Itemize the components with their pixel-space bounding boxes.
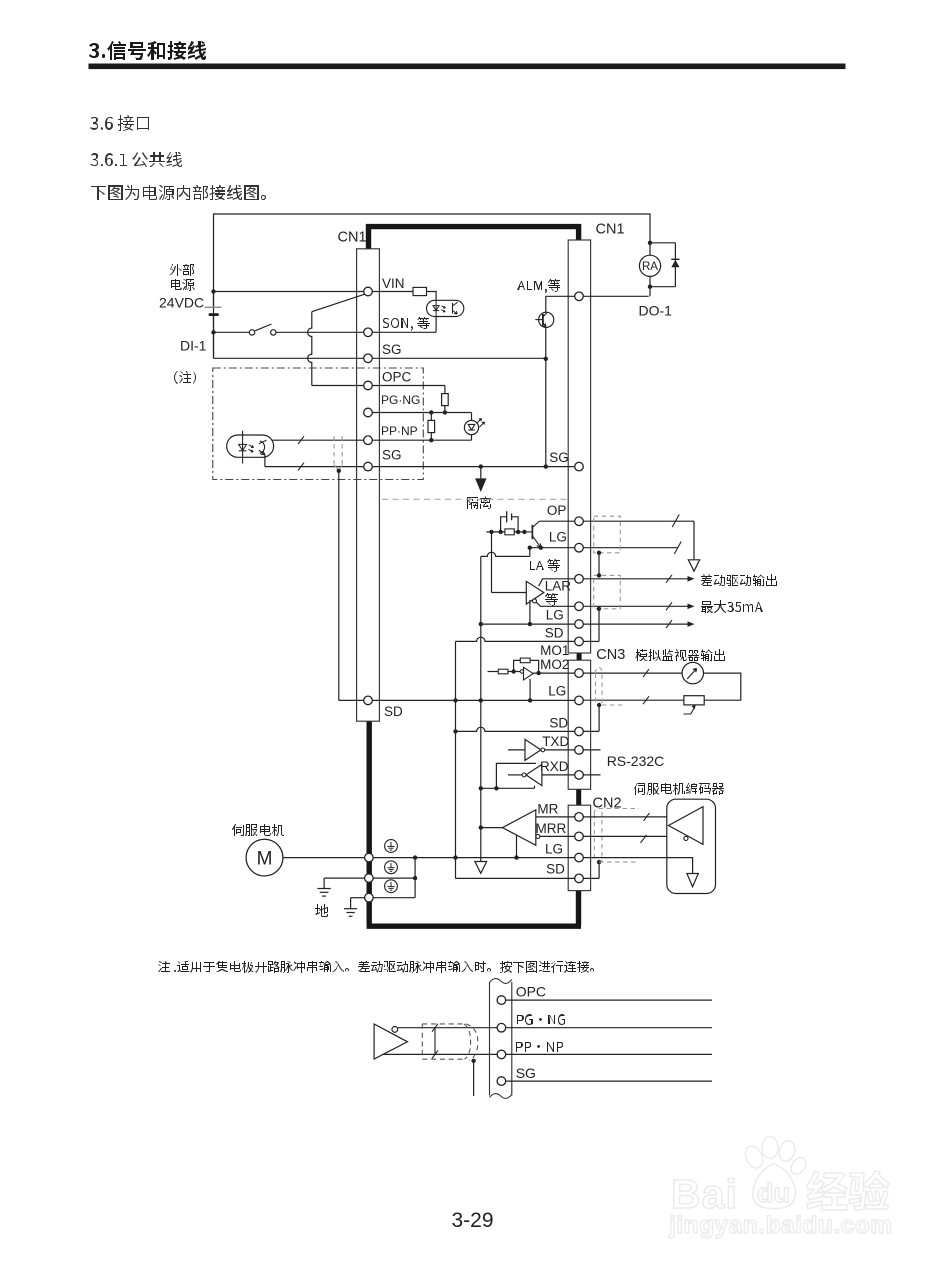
svg-text:SD: SD <box>546 862 565 877</box>
servo amplifier thick right side (below CN2) <box>576 891 581 926</box>
wire CN3 shield to SD <box>598 705 600 731</box>
wire VIN to OPC pull-up vertical <box>312 294 365 311</box>
terminal E1 <box>365 853 374 862</box>
wire R4 to opto U1 <box>427 292 437 301</box>
svg-text:RS-232C: RS-232C <box>607 753 665 769</box>
resistor R2 (PG-PP) <box>428 420 435 432</box>
label 差动驱动输出 <box>701 574 777 586</box>
pin PP·NP <box>364 436 373 445</box>
wire MO2 output <box>533 672 575 674</box>
svg-text:DO-1: DO-1 <box>639 303 673 319</box>
svg-text:Bai: Bai <box>671 1171 738 1217</box>
pin LG (LAR return) <box>575 620 584 629</box>
pin SD (CN1 left) <box>364 696 373 705</box>
pin LAR- <box>575 602 584 611</box>
svg-text:CN1: CN1 <box>596 222 625 238</box>
svg-text:SG: SG <box>382 342 402 357</box>
junction SG/ALM emitter bottom <box>544 464 548 468</box>
pin MRR <box>575 832 584 841</box>
wire ALM pin to RA <box>583 295 648 297</box>
wire E3 right <box>373 897 415 899</box>
wire OP line right with cable slash <box>583 520 694 522</box>
wire RXD from pin <box>542 774 575 776</box>
wire PG·NG detail <box>506 1027 712 1029</box>
wire SG to ALM emitter <box>372 357 545 359</box>
svg-text:SG: SG <box>382 448 402 463</box>
wire R2 to PP net <box>430 433 432 441</box>
wire shield drain to SD rail <box>338 471 340 701</box>
pin SD (CN1) <box>575 637 584 646</box>
wire node to LAR input <box>491 532 493 593</box>
resistor R3 (Q2 base) <box>505 529 514 535</box>
wire SON pin to opto loop <box>372 331 436 333</box>
protective earth symbol 2 <box>385 861 398 874</box>
servo amplifier thick bottom bar <box>367 924 581 929</box>
wire TXD input stub <box>508 749 525 751</box>
wire OPC detail <box>506 999 712 1001</box>
shield link V1 <box>598 553 600 576</box>
wire SG left <box>214 357 364 359</box>
note text <box>158 961 594 973</box>
wire battery- down to SG <box>213 332 215 358</box>
wire vertical ground rail B <box>480 556 482 861</box>
label 等 (LAR) <box>545 593 558 606</box>
battery 24VDC external supply <box>213 292 215 307</box>
wire OPC right <box>372 385 445 387</box>
wire LG to isolation vertical (hop) <box>481 552 525 556</box>
cable tick SG wire <box>298 463 304 471</box>
wire LG2 right <box>583 623 687 625</box>
wire LAR input <box>492 592 527 594</box>
wire SD CN3 (hop) <box>456 727 575 731</box>
junction U7/vertical B <box>479 825 483 829</box>
junction CN3 shield <box>597 703 601 707</box>
svg-text:TXD: TXD <box>542 734 569 749</box>
svg-text:RXD: RXD <box>540 759 569 774</box>
bottom connector strip (CN1 partial) <box>489 982 491 1096</box>
pin RXD <box>575 771 584 780</box>
junction rail/vertical A <box>453 698 457 702</box>
protective earth symbol 3 <box>385 880 398 893</box>
svg-text:CN1: CN1 <box>338 230 367 246</box>
svg-text:OPC: OPC <box>382 370 412 385</box>
wire E2 left <box>324 877 364 879</box>
terminal E3 <box>365 893 374 902</box>
junction shield1 <box>597 551 601 555</box>
wire TXD to pin <box>545 749 575 751</box>
wire vertical SD rail A <box>455 641 457 878</box>
junction shield2 bottom <box>597 607 601 611</box>
open arrow termination OP/LG pair <box>693 521 695 559</box>
arrow LG2 output <box>688 621 695 627</box>
wire LAR+ right <box>583 578 687 580</box>
wire E3 left <box>351 897 365 899</box>
wire E2 right <box>373 877 415 879</box>
svg-text:M: M <box>257 849 273 870</box>
resistor R4 (VIN series) <box>413 287 427 295</box>
wire motor to amp <box>283 857 367 859</box>
label 伺服电机 <box>232 824 284 836</box>
svg-text:MRR: MRR <box>536 821 567 836</box>
pin LG (CN3) <box>575 696 584 705</box>
wire RXD right stub <box>583 774 600 776</box>
wire to R2 <box>430 413 432 421</box>
wire to SD pin <box>339 699 364 701</box>
cable tick top <box>432 1024 438 1032</box>
terminal E2 <box>365 874 374 883</box>
cable tick MR <box>644 813 650 821</box>
pin SON <box>364 328 373 337</box>
wire DI-1 to switch <box>214 331 250 333</box>
wire MRR <box>540 835 575 837</box>
svg-text:OP: OP <box>547 503 567 518</box>
svg-text:LG: LG <box>545 842 563 857</box>
encoder (servo motor encoder) <box>667 799 716 893</box>
twisted pair crossover <box>434 1028 436 1055</box>
wire OPC to R1 <box>444 386 446 394</box>
servo amplifier thick left side <box>367 721 372 926</box>
shield dashed box MO2/LG pair <box>596 668 603 706</box>
wire SG lower to CN1 right <box>372 466 574 468</box>
junction E2 link <box>413 876 417 880</box>
wire VIN to R4 <box>372 291 413 293</box>
label （注） <box>174 371 196 384</box>
svg-text:MO2: MO2 <box>540 657 569 672</box>
wire SG lower left <box>265 466 364 468</box>
wire U7 output to rail B <box>481 827 503 829</box>
junction rail/vertical B <box>479 698 483 702</box>
pin LG (CN2) <box>575 853 584 862</box>
shield link V2 to SD <box>598 609 600 642</box>
differential driver U3 (LA/LAR) <box>526 581 544 604</box>
wire PP·NP detail <box>506 1053 712 1055</box>
junction bus/terminal link <box>413 855 417 859</box>
junction U7 gnd/bus <box>514 855 518 859</box>
svg-text:PP·NP: PP·NP <box>381 424 418 438</box>
junction 24VDC+ <box>211 289 215 293</box>
wire feedback up <box>514 660 521 671</box>
svg-text:jingyan.baidu.com: jingyan.baidu.com <box>668 1212 893 1239</box>
wire SD CN1 (hop over vertical) <box>456 637 575 641</box>
pin LG (OP return) <box>575 543 584 552</box>
junction RA/diode bottom <box>648 285 652 289</box>
transistor Q1 (ALM open collector) <box>539 312 554 327</box>
wire DO-1 outer loop (24VDC+ to RA relay) <box>214 214 651 358</box>
svg-text:SG: SG <box>516 1065 536 1081</box>
svg-text:VIN: VIN <box>382 276 405 291</box>
pin ALM <box>575 292 584 301</box>
pin SG (right CN1) <box>575 462 584 471</box>
servo amplifier thick top bar <box>369 227 579 249</box>
wire meter return <box>704 673 741 700</box>
wire U7 gnd down <box>516 835 518 858</box>
wire RXD return L <box>496 763 536 788</box>
svg-text:SD: SD <box>545 626 564 641</box>
svg-text:du: du <box>757 1178 790 1208</box>
svg-text:RA: RA <box>642 261 658 273</box>
ground arrow (frame) at rail B <box>475 862 487 874</box>
wire to OPC pin <box>312 385 364 387</box>
cable tick LAR- <box>666 602 672 610</box>
junction CN2 shield <box>597 860 601 864</box>
shield dashed box CN2 cable <box>594 809 639 815</box>
pin TXD <box>575 746 584 755</box>
pin PG·NG (detail) <box>497 1023 506 1032</box>
dash-dot box (注) open-collector input section <box>213 368 423 480</box>
svg-text:DI-1: DI-1 <box>180 338 207 354</box>
isolation marker 隔离 arrow <box>480 467 482 479</box>
junction LG/ground drop <box>528 546 532 550</box>
cable tick LAR+ <box>666 575 672 583</box>
svg-text:SG: SG <box>549 450 569 465</box>
watermark baidu jingyan <box>671 1137 809 1218</box>
wire RXD output stub <box>508 774 522 776</box>
opto-coupler LED (pulse input) <box>471 413 473 421</box>
junction LG2/isolation vertical <box>479 622 483 626</box>
relay RA <box>639 255 660 276</box>
cable tick bottom <box>432 1050 438 1058</box>
wire MR <box>536 816 575 818</box>
differential driver U8 (external) <box>374 1024 407 1059</box>
pin MO2 <box>575 669 584 678</box>
label 地 <box>315 904 328 917</box>
pin SG (pulse common) <box>364 462 373 471</box>
wire OP <box>539 520 574 522</box>
wire SD/LG rail <box>372 699 574 701</box>
wire SD pin right stub <box>583 730 599 732</box>
wire return rail <box>481 787 535 789</box>
junction bus/vertical A <box>453 855 457 859</box>
wire SD CN2 right stub <box>583 877 599 879</box>
wire op-amp input stub <box>488 671 499 673</box>
junction node/LAR input <box>489 530 493 534</box>
svg-text:LG: LG <box>548 684 566 699</box>
wire SD CN2 left <box>456 877 575 879</box>
wire PG·NG right <box>372 412 471 414</box>
thick link CN3-CN2 <box>576 789 581 805</box>
svg-text:OPC: OPC <box>516 984 546 1000</box>
pin PG·NG <box>364 408 373 417</box>
wire RA to ALM wire <box>649 276 651 296</box>
junction node/cap right <box>516 530 520 534</box>
svg-text:LG: LG <box>549 530 567 545</box>
shield dashed box OP/LG pair <box>594 516 621 553</box>
label 隔离 <box>467 496 491 509</box>
pin OPC <box>364 381 373 390</box>
shield dashed box detail <box>422 1023 466 1025</box>
thick link CN1-CN3 <box>577 653 582 661</box>
opto-coupler U1 (SON input) <box>427 300 464 316</box>
wire R1 to PG net <box>444 406 446 413</box>
wire diode branch <box>674 243 676 287</box>
svg-text:MR: MR <box>537 802 558 817</box>
driver ground to LG2 <box>529 600 531 624</box>
pin PP·NP (detail) <box>497 1050 506 1059</box>
wire MR to encoder <box>583 816 684 818</box>
wire feedback to output <box>530 660 539 673</box>
junction shield drain <box>337 469 341 473</box>
label 伺服电机编码器 <box>634 783 724 795</box>
label PP・NP (detail) <box>516 1042 563 1052</box>
label 电源 <box>171 279 195 291</box>
pin LAR+ <box>575 575 584 584</box>
LAR+ output <box>539 579 575 586</box>
junction SG/ALM emitter <box>544 357 548 361</box>
capacitor C1 <box>501 517 507 532</box>
arrow LAR+ output <box>688 576 695 582</box>
svg-text:SD: SD <box>384 704 403 719</box>
wire LG second <box>481 623 575 625</box>
cable slash OP line <box>672 515 679 528</box>
label 最大35mA <box>701 600 763 613</box>
cable tick LG return <box>643 696 649 704</box>
wire opto U1 LED to SON <box>435 317 437 333</box>
section 3.6.1 公共线 <box>90 152 182 167</box>
heading rule <box>89 64 846 70</box>
pin SD (CN3) <box>575 727 584 736</box>
receiver U7 (MR/MRR) <box>503 810 536 845</box>
pin OP <box>575 517 584 526</box>
cable slash LG line <box>674 542 681 555</box>
potentiometer RP <box>684 696 704 705</box>
section 3.6 接口 <box>90 115 149 131</box>
label 外部 <box>169 264 194 276</box>
connector CN2 strip <box>568 805 590 890</box>
intro text 下图为电源内部接线图。 <box>91 185 266 200</box>
svg-text:CN2: CN2 <box>593 796 622 812</box>
junction rail/op-amp gnd <box>528 698 532 702</box>
svg-text:3-29: 3-29 <box>452 1209 494 1232</box>
pin OPC (detail) <box>497 996 506 1005</box>
cable tick LG2 <box>666 620 672 628</box>
arrow LAR- output <box>688 604 695 610</box>
junction DI-1/battery <box>211 330 215 334</box>
shield dashed box (input cable) <box>333 436 335 465</box>
junction R1/PG <box>443 410 447 414</box>
junction detail shield <box>471 1059 475 1063</box>
meter M1 (analog monitor) <box>682 662 703 683</box>
wire opto emitter down to SG <box>264 454 266 466</box>
junction output/feedback <box>536 671 540 675</box>
switch SW DI-1 <box>249 330 254 335</box>
wire MRR to encoder <box>583 835 683 837</box>
wire SG detail <box>506 1080 712 1082</box>
wire LG drop <box>529 548 531 557</box>
junction op-amp in/feedback <box>511 669 515 673</box>
wire switch to SON pin <box>276 331 364 333</box>
connector CN1 right strip <box>568 240 590 653</box>
junction node/cap left <box>498 530 502 534</box>
motor M <box>246 839 283 876</box>
wire CN2 shield drain <box>598 862 600 878</box>
junction return/vertical B <box>479 786 483 790</box>
dashed isolation boundary line <box>382 498 568 500</box>
wire driver+ to PG·NG <box>398 1027 497 1029</box>
opto-coupler U2 (line receiver input) <box>227 435 274 457</box>
wire LG line right <box>583 547 678 549</box>
junction node/Q2 base <box>522 530 526 534</box>
wire LG first <box>530 547 575 549</box>
connector CN1 left strip <box>357 249 380 721</box>
label ALM,等 <box>517 279 560 293</box>
svg-text:24VDC: 24VDC <box>159 295 204 311</box>
wire PP·NP right <box>372 439 471 441</box>
wire driver- to PP·NP <box>383 1053 497 1055</box>
svg-text:SD: SD <box>549 716 568 731</box>
junction RXD return <box>494 786 498 790</box>
diode D1 (flyback) <box>671 260 679 268</box>
wire op-amp gnd down <box>529 679 531 700</box>
junction SD/vertical A <box>453 729 457 733</box>
pin SG (detail) <box>497 1077 506 1086</box>
pin SG (input common) <box>364 354 373 363</box>
protective earth symbol 1 <box>385 840 398 853</box>
resistor R1 (OPC pull-up) <box>442 394 449 406</box>
wire PP·NP left to opto collector <box>267 439 364 441</box>
wire SD pin to shield V2 <box>583 640 599 642</box>
wire LG into encoder <box>583 858 692 874</box>
ground bus wire <box>372 857 575 859</box>
junction SG/isolation marker <box>479 464 483 468</box>
pin VIN <box>364 287 373 296</box>
svg-text:PG·NG: PG·NG <box>381 393 420 407</box>
label LA 等 <box>530 559 560 572</box>
cable tick MRR <box>641 835 647 843</box>
wire 24VDC+ to VIN <box>214 291 364 293</box>
wire RXD tri corner drop <box>534 786 536 789</box>
wire diode bottom <box>650 286 675 288</box>
wire TXD right stub <box>583 749 600 751</box>
wire detail shield drain <box>473 1061 475 1096</box>
earth ground G1 <box>323 878 325 888</box>
junction RA/diode top <box>648 241 652 245</box>
page heading 3.信号和接线 <box>89 41 206 60</box>
node line Q2 base network <box>486 531 524 533</box>
svg-text:LG: LG <box>546 608 564 623</box>
svg-text:LAR: LAR <box>545 579 572 594</box>
LAR- inverted output bubble <box>533 599 537 603</box>
wire LED to PP net <box>471 434 473 440</box>
label SON, 等 <box>383 317 430 331</box>
junction PG/R2 <box>429 410 433 414</box>
wire pot to LG pin <box>583 699 684 701</box>
transistor Q2 (OP output) <box>531 525 533 539</box>
junction driver gnd/LG2 <box>528 622 532 626</box>
wire terminal link vertical <box>414 858 416 898</box>
wire to diode D1 <box>650 242 675 244</box>
svg-text:MO1: MO1 <box>540 643 569 658</box>
earth ground G2 <box>350 898 352 909</box>
cable tick PP wire <box>298 436 304 444</box>
junction R2/PP <box>429 438 433 442</box>
wire MO2 to meter <box>583 672 682 674</box>
ground arrow inside encoder <box>687 874 698 887</box>
wire Q1 emitter to SG <box>545 327 547 467</box>
junction shield2 <box>597 573 601 577</box>
junction LG/Q2 emitter <box>539 546 543 550</box>
wire LAR- right <box>583 605 687 607</box>
wire ALM pin to Q1 collector <box>546 295 575 297</box>
cable tick MO2 <box>643 669 649 677</box>
label 模拟监视器输出 <box>635 649 725 661</box>
pin MR <box>575 813 584 822</box>
connector CN3 strip <box>568 660 590 789</box>
shield dashed box LAR pair <box>594 575 621 608</box>
pin SD (CN2) <box>575 874 584 883</box>
wire Q1 collector <box>545 296 547 312</box>
wire vertical VIN-OPC with hops <box>308 312 312 386</box>
svg-text:CN3: CN3 <box>596 647 625 663</box>
